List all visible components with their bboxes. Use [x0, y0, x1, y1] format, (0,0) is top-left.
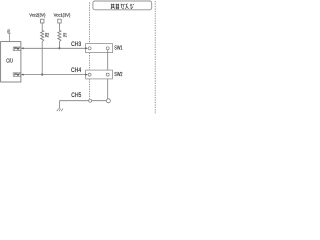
- CH5 wire from ground riser to terminal: [59, 100, 106, 102]
- arrowhead into SW1: [85, 47, 87, 49]
- switch SW2 body: [86, 70, 113, 79]
- svg-text:R2: R2: [45, 33, 49, 39]
- resistor R1 zigzag: [58, 30, 61, 41]
- svg-text:C/U: C/U: [6, 59, 13, 65]
- svg-text:Vcc1(3V): Vcc1(3V): [54, 13, 71, 18]
- mechanical link dashed line (guide to switches), upper segment: [89, 2, 91, 43]
- wire: R2 down to CH4 line (crosses CH3 without junction): [41, 42, 43, 75]
- wire: Vcc1 to resistor R1: [58, 23, 60, 31]
- switch SW1 body: [86, 44, 113, 53]
- SW1 left contact circle: [88, 47, 91, 50]
- CH5 small link circle (mech link end): [89, 99, 92, 102]
- wire: SW2 box bottom down to CH5 terminal: [107, 79, 109, 99]
- C/U pin box 2 (CH4 port): [13, 73, 20, 77]
- svg-text:R1: R1: [63, 33, 67, 39]
- ground riser wire: [58, 101, 60, 109]
- svg-text:PW: PW: [14, 74, 20, 77]
- Vcc2 power terminal symbol: [41, 19, 45, 23]
- mechanical link dashed line, middle segment (between SW1 and SW2): [89, 53, 91, 71]
- junction dot R1/CH3: [58, 47, 60, 49]
- CH5 terminal circle: [106, 99, 110, 103]
- SW2 left contact circle: [88, 73, 91, 76]
- mechanical link dashed line, lower segment (SW2 to CH5 terminal): [89, 79, 91, 99]
- junction dot R2/CH4: [41, 74, 43, 76]
- guide box (規制ガイド): [93, 1, 152, 10]
- CH3 wire from C/U pin 1 to SW1: [23, 47, 87, 49]
- svg-text:CH5: CH5: [71, 92, 81, 99]
- arrowhead into C/U pin 2: [21, 74, 23, 76]
- svg-text:CH3: CH3: [71, 41, 82, 48]
- resistor R2 zigzag: [41, 30, 44, 41]
- svg-text:SW1: SW1: [114, 46, 122, 52]
- C/U pin box 1 (CH3 port): [13, 47, 21, 51]
- svg-text:PW: PW: [14, 48, 20, 51]
- SW2 right contact circle: [106, 73, 109, 76]
- svg-text:Vcc2(3V): Vcc2(3V): [29, 13, 45, 18]
- arrowhead into SW2: [85, 74, 87, 76]
- boundary dashed line (right edge of apparatus): [154, 1, 156, 114]
- wire: SW1 right contact down to SW2 box top: [107, 50, 109, 70]
- ground symbol (hatched earth): [57, 109, 63, 112]
- wire: Vcc2 to resistor R2: [41, 23, 43, 31]
- svg-text:CH4: CH4: [71, 67, 82, 74]
- Vcc1 power terminal symbol: [58, 19, 62, 23]
- svg-text:SW2: SW2: [114, 72, 122, 78]
- guide box label 規制ガイド (pseudo-kanji strokes): [111, 4, 134, 9]
- leader line from 61 to C/U box: [8, 34, 11, 42]
- arrowhead into C/U pin 1: [21, 47, 23, 49]
- wire: R1 down to CH3 line: [58, 42, 60, 49]
- CH4 wire from C/U pin 2 to SW2: [23, 74, 87, 76]
- C/U controller box 61: [1, 42, 21, 82]
- SW1 right contact circle: [106, 47, 109, 50]
